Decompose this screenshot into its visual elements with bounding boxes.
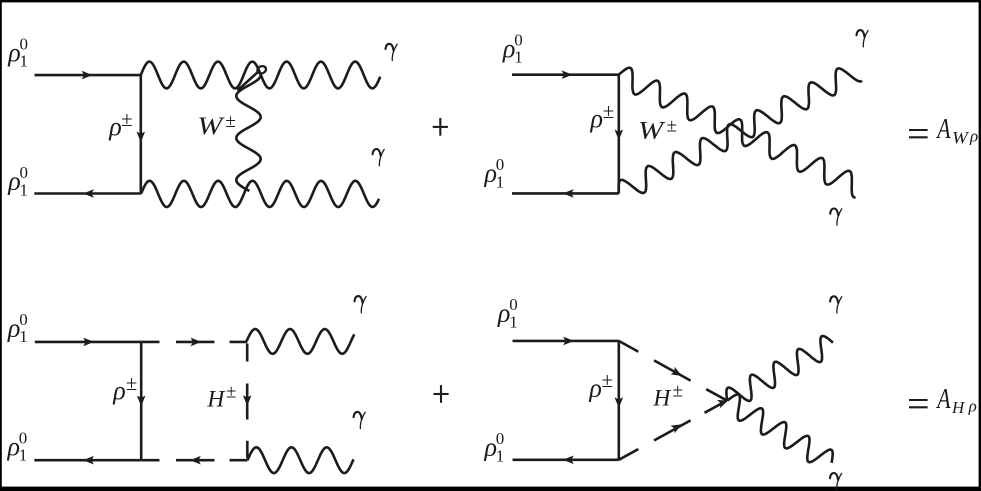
label gamma bottom (D1) xyxy=(373,149,381,156)
svg-text:A: A xyxy=(935,115,951,145)
arrow right on H dashed top (D3) xyxy=(191,338,202,347)
operator plus (top row) xyxy=(433,126,448,128)
svg-text:±: ± xyxy=(226,381,236,402)
propagator W wavy vertical (D1) xyxy=(236,72,260,191)
wire incoming rho1 top (D3) xyxy=(35,341,141,344)
label gamma top-right (D2) xyxy=(857,30,865,37)
label gamma top (D1) xyxy=(386,44,394,51)
arrow right on top rho1 (D1) xyxy=(82,71,93,80)
svg-text:0: 0 xyxy=(19,428,28,447)
svg-text:0: 0 xyxy=(496,429,505,448)
label gamma top (D4) xyxy=(830,296,838,303)
svg-text:±: ± xyxy=(603,99,615,123)
svg-text:0: 0 xyxy=(20,34,29,53)
arrow on H dashed upper (D4) xyxy=(671,367,683,376)
svg-text:0: 0 xyxy=(19,310,28,329)
arrow right on top rho1 (D3) xyxy=(83,338,94,347)
label gamma bottom (D4) xyxy=(830,473,838,480)
svg-text:H: H xyxy=(652,385,672,411)
photon wave top (D1) xyxy=(141,62,380,89)
svg-text:W: W xyxy=(952,128,970,147)
arrow down on rho+- (D1) xyxy=(137,132,146,143)
photon wave bottom (D1) xyxy=(141,181,379,207)
svg-text:H: H xyxy=(206,386,226,412)
arrow down on rho+- (D4) xyxy=(615,397,624,408)
arrow down on rho+- (D2) xyxy=(615,130,624,141)
svg-text:±: ± xyxy=(126,371,138,395)
wire incoming rho1 top (D1) xyxy=(35,74,141,77)
frame top bar xyxy=(0,0,981,2)
propagator H dashed vertical (D3) xyxy=(246,344,249,362)
arrow at centre vertex (D4) xyxy=(717,400,728,408)
svg-text:0: 0 xyxy=(509,295,518,314)
svg-text:W: W xyxy=(197,112,225,140)
arrow on H dashed lower (D4) xyxy=(671,424,683,433)
photon wave bottom (D3) xyxy=(248,447,354,473)
svg-text:1: 1 xyxy=(496,172,505,191)
arrow left on H dashed bottom (D3) xyxy=(190,456,201,465)
wire incoming rho1 bottom (D3) xyxy=(34,459,141,462)
svg-text:1: 1 xyxy=(19,327,28,346)
propagator H dashed bottom (D3) xyxy=(141,459,159,462)
svg-text:±: ± xyxy=(602,368,614,392)
svg-text:ρ: ρ xyxy=(968,397,977,416)
svg-text:±: ± xyxy=(673,380,683,401)
arrow left on bottom rho1 (D2) xyxy=(563,189,574,198)
W attach diagonal (D1) xyxy=(238,71,260,91)
equation = A_Hrho xyxy=(909,399,928,401)
equation = A_Wrho xyxy=(909,129,928,131)
svg-text:ρ: ρ xyxy=(588,374,601,403)
arrow down on H dashed vertical (D3) xyxy=(243,395,252,406)
operator plus (bottom row) xyxy=(433,393,448,395)
svg-text:ρ: ρ xyxy=(108,112,121,141)
propagator H dashed lower (D4) xyxy=(619,449,639,460)
propagator rho+- vertical (D3) xyxy=(140,342,143,460)
wire incoming rho1 top (D4) xyxy=(513,340,619,343)
svg-text:1: 1 xyxy=(20,180,29,199)
svg-text:1: 1 xyxy=(496,446,505,465)
photon wave lower (D4) xyxy=(727,394,833,462)
svg-text:W: W xyxy=(638,117,666,145)
label gamma bottom-right (D2) xyxy=(830,209,838,216)
svg-text:±: ± xyxy=(225,111,235,132)
svg-text:1: 1 xyxy=(20,52,29,71)
svg-text:H: H xyxy=(951,398,966,417)
arrow right on top rho1 (D4) xyxy=(563,337,574,346)
svg-text:±: ± xyxy=(667,116,677,137)
svg-text:ρ: ρ xyxy=(112,376,125,405)
frame bottom bar xyxy=(0,487,981,491)
label gamma bottom (D3) xyxy=(354,412,362,419)
arrow left on bottom rho1 (D3) xyxy=(83,456,94,465)
wire incoming rho1 top (D2) xyxy=(512,73,619,76)
svg-text:±: ± xyxy=(121,107,133,131)
arrow down on rho+- (D3) xyxy=(137,396,146,407)
propagator rho+- vertical (D2) xyxy=(617,75,620,194)
wire incoming rho1 bottom (D1) xyxy=(34,192,141,195)
svg-text:ρ: ρ xyxy=(590,104,603,133)
label gamma top (D3) xyxy=(355,296,363,303)
svg-text:0: 0 xyxy=(514,30,523,49)
arrow left on bottom rho1 (D4) xyxy=(563,456,574,465)
svg-text:1: 1 xyxy=(509,312,518,331)
photon wave crossed A (D2) xyxy=(619,68,856,198)
propagator rho+- vertical (D1) xyxy=(140,75,143,193)
propagator H dashed upper (D4) xyxy=(619,341,639,352)
arrow right on top rho1 (D2) xyxy=(562,70,573,79)
photon wave top (D3) xyxy=(247,329,355,354)
svg-text:1: 1 xyxy=(514,48,523,67)
propagator rho+- vertical (D4) xyxy=(617,341,620,460)
frame left bar xyxy=(0,0,2,487)
photon wave crossed B (D2) xyxy=(619,68,862,193)
arrow left on bottom rho1 (D1) xyxy=(83,189,94,198)
frame right bar xyxy=(979,0,981,487)
svg-text:1: 1 xyxy=(19,446,28,465)
svg-text:A: A xyxy=(935,385,951,415)
svg-text:ρ: ρ xyxy=(969,127,978,146)
wire incoming rho1 bottom (D4) xyxy=(513,458,619,461)
svg-text:0: 0 xyxy=(20,163,29,182)
photon wave upper (D4) xyxy=(726,336,833,401)
propagator H dashed top (D3) xyxy=(141,341,159,344)
wire incoming rho1 bottom (D2) xyxy=(512,192,619,195)
svg-text:0: 0 xyxy=(496,155,505,174)
loop artifact at W top (D1) xyxy=(256,65,267,75)
